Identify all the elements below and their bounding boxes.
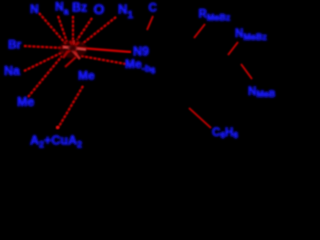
svg-text:Me: Me: [78, 69, 95, 83]
dashed bright rays: [24, 13, 126, 128]
svg-text:Bz: Bz: [72, 1, 87, 15]
svg-text:C: C: [149, 3, 157, 15]
wire underlay E: [82, 17, 116, 44]
bond R1: [147, 16, 153, 30]
svg-text:A2+CuA2: A2+CuA2: [30, 134, 82, 150]
bond ray I bright: [62, 47, 131, 53]
left structure: metal centre cluster: [24, 13, 126, 128]
cluster dark centre: [68, 45, 76, 51]
bond ray C: [72, 16, 74, 44]
bond ray G: [24, 52, 63, 71]
wire underlay F: [24, 46, 64, 48]
wire underlay H: [28, 56, 62, 97]
bond S2: [58, 86, 83, 128]
bond ray A: [39, 13, 66, 44]
wire underlay J: [81, 56, 126, 64]
bond R5: [189, 108, 211, 128]
wire underlay B: [58, 16, 67, 42]
cluster glow: [59, 40, 87, 58]
bond ray E: [82, 17, 116, 44]
wire underlay G: [24, 52, 63, 71]
svg-text:Me: Me: [17, 95, 34, 109]
svg-text:Br: Br: [8, 38, 22, 52]
svg-text:O: O: [94, 1, 105, 17]
bond R2: [194, 24, 205, 38]
bond ray F: [24, 46, 64, 48]
bond ray D: [77, 18, 92, 40]
wire underlay A: [39, 13, 66, 44]
bond R4: [241, 64, 252, 79]
bond ray B: [58, 16, 67, 42]
svg-text:Na: Na: [4, 64, 21, 78]
node dot end of S2: [56, 126, 59, 129]
wire underlay C: [72, 16, 74, 44]
bond R3: [228, 42, 238, 55]
bond stub S1: [65, 57, 76, 67]
bond ray H: [28, 56, 62, 97]
cluster core: [63, 40, 86, 59]
bond ray J: [81, 56, 126, 64]
svg-text:N: N: [30, 2, 39, 16]
wire underlay S2: [58, 86, 83, 128]
wire underlay D: [77, 18, 92, 40]
